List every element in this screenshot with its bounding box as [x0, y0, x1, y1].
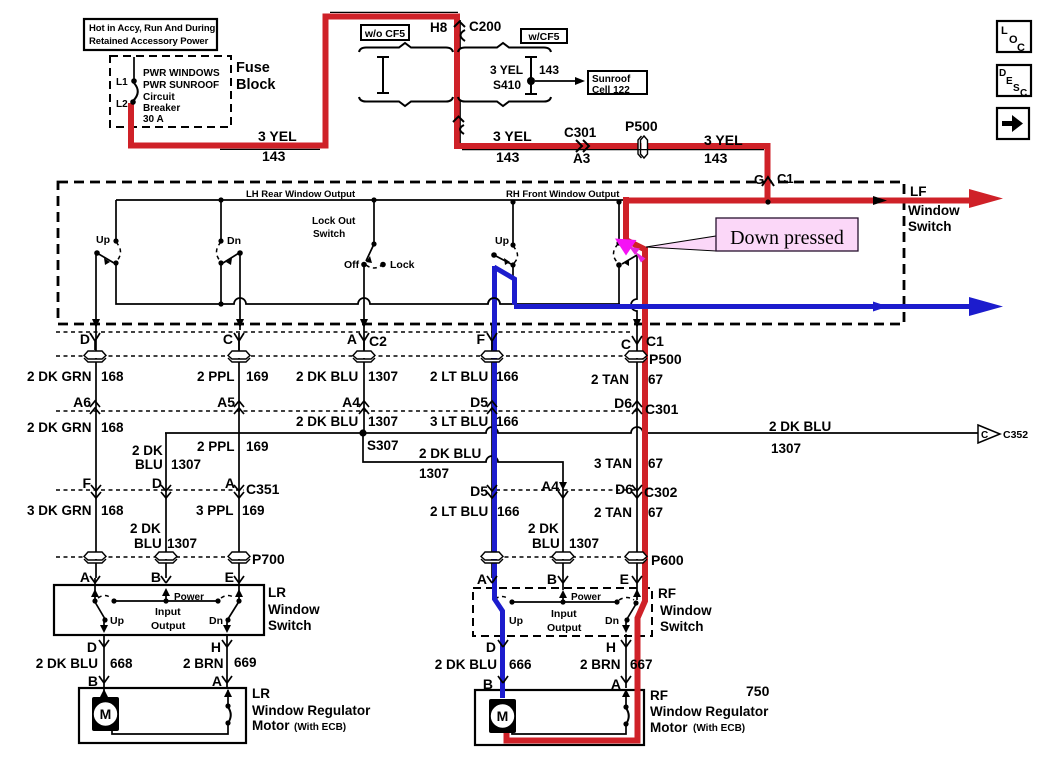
svg-text:Up: Up — [509, 615, 523, 627]
svg-text:A: A — [347, 331, 357, 347]
svg-text:750: 750 — [746, 683, 770, 699]
svg-text:P500: P500 — [649, 351, 682, 367]
svg-text:(With ECB): (With ECB) — [294, 722, 346, 733]
svg-text:Motor: Motor — [650, 720, 688, 735]
svg-text:3 YEL: 3 YEL — [704, 132, 743, 148]
svg-text:Switch: Switch — [660, 619, 704, 634]
svg-text:A4: A4 — [342, 394, 360, 410]
svg-text:Output: Output — [151, 620, 186, 632]
svg-text:Output: Output — [547, 622, 582, 634]
svg-text:2 BRN: 2 BRN — [580, 657, 621, 672]
svg-text:B: B — [483, 676, 493, 692]
svg-text:C352: C352 — [1003, 429, 1028, 441]
svg-text:P700: P700 — [252, 551, 285, 567]
svg-text:166: 166 — [497, 504, 520, 519]
svg-text:Window Regulator: Window Regulator — [650, 704, 769, 719]
svg-text:C200: C200 — [469, 19, 501, 34]
svg-text:Window: Window — [268, 602, 320, 617]
svg-text:A4: A4 — [541, 478, 559, 494]
svg-text:168: 168 — [101, 420, 124, 435]
svg-text:H: H — [606, 639, 616, 655]
svg-text:3 PPL: 3 PPL — [196, 503, 234, 518]
svg-text:1307: 1307 — [569, 536, 599, 551]
svg-text:169: 169 — [246, 369, 269, 384]
svg-text:2 LT BLU: 2 LT BLU — [430, 369, 488, 384]
svg-text:Power: Power — [174, 592, 204, 603]
svg-text:C1: C1 — [777, 171, 794, 186]
svg-text:C: C — [1020, 88, 1027, 99]
svg-text:D5: D5 — [470, 483, 488, 499]
svg-text:Power: Power — [571, 592, 601, 603]
svg-text:Input: Input — [155, 606, 181, 618]
svg-text:C302: C302 — [644, 484, 678, 500]
svg-text:S410: S410 — [493, 78, 521, 92]
svg-text:2 DK BLU: 2 DK BLU — [36, 656, 98, 671]
svg-text:669: 669 — [234, 655, 257, 670]
svg-text:Up: Up — [495, 235, 509, 247]
svg-text:3 TAN: 3 TAN — [594, 456, 632, 471]
svg-text:BLU: BLU — [135, 457, 163, 472]
svg-text:2 DK: 2 DK — [132, 443, 163, 458]
svg-text:A: A — [80, 569, 90, 585]
svg-text:Motor: Motor — [252, 718, 290, 733]
svg-text:RF: RF — [650, 688, 668, 703]
svg-text:LR: LR — [252, 686, 270, 701]
svg-text:LF: LF — [910, 184, 927, 199]
svg-text:2 BRN: 2 BRN — [183, 656, 224, 671]
svg-text:2 DK: 2 DK — [130, 521, 161, 536]
svg-text:C: C — [223, 331, 233, 347]
svg-text:Block: Block — [236, 77, 276, 93]
svg-text:Lock Out: Lock Out — [312, 216, 356, 227]
svg-text:666: 666 — [509, 657, 532, 672]
svg-text:3 YEL: 3 YEL — [490, 63, 523, 77]
svg-text:E: E — [1006, 76, 1013, 87]
svg-text:Window: Window — [660, 603, 712, 618]
svg-text:H: H — [211, 639, 221, 655]
svg-text:D5: D5 — [470, 394, 488, 410]
svg-text:C351: C351 — [246, 481, 280, 497]
svg-text:2 DK BLU: 2 DK BLU — [769, 419, 831, 434]
svg-text:E: E — [225, 569, 234, 585]
svg-text:Cell 122: Cell 122 — [592, 85, 630, 96]
svg-text:168: 168 — [101, 503, 124, 518]
svg-text:P600: P600 — [651, 552, 684, 568]
svg-text:2 DK BLU: 2 DK BLU — [419, 446, 481, 461]
svg-text:Fuse: Fuse — [236, 60, 270, 76]
svg-text:Circuit: Circuit — [143, 92, 175, 103]
svg-text:C2: C2 — [369, 333, 387, 349]
svg-text:30 A: 30 A — [143, 114, 164, 125]
svg-text:D6: D6 — [615, 481, 633, 497]
svg-text:G: G — [754, 172, 764, 187]
svg-text:143: 143 — [704, 150, 728, 166]
svg-text:169: 169 — [242, 503, 265, 518]
svg-text:Switch: Switch — [268, 618, 312, 633]
svg-text:3 DK GRN: 3 DK GRN — [27, 503, 92, 518]
svg-text:Dn: Dn — [227, 235, 241, 247]
svg-text:3 YEL: 3 YEL — [258, 128, 297, 144]
svg-text:A: A — [225, 475, 235, 491]
svg-text:67: 67 — [648, 372, 663, 387]
svg-text:C301: C301 — [645, 401, 679, 417]
svg-text:169: 169 — [246, 439, 269, 454]
svg-text:2 DK: 2 DK — [528, 521, 559, 536]
svg-text:1307: 1307 — [419, 466, 449, 481]
svg-text:Up: Up — [96, 234, 110, 246]
svg-text:166: 166 — [496, 369, 519, 384]
svg-text:667: 667 — [630, 657, 653, 672]
svg-text:67: 67 — [648, 505, 663, 520]
svg-text:2 DK BLU: 2 DK BLU — [435, 657, 497, 672]
svg-text:A: A — [611, 676, 621, 692]
svg-text:D: D — [80, 331, 90, 347]
svg-text:D: D — [486, 639, 496, 655]
svg-text:D6: D6 — [614, 395, 632, 411]
svg-text:C: C — [981, 430, 988, 441]
svg-text:C: C — [621, 336, 631, 352]
svg-text:2 DK GRN: 2 DK GRN — [27, 420, 92, 435]
svg-text:2 PPL: 2 PPL — [197, 369, 235, 384]
svg-text:143: 143 — [496, 149, 520, 165]
svg-text:F: F — [476, 331, 485, 347]
svg-text:C: C — [1017, 42, 1025, 54]
svg-text:C301: C301 — [564, 125, 597, 140]
svg-text:BLU: BLU — [134, 536, 162, 551]
svg-text:Dn: Dn — [605, 615, 619, 627]
svg-text:Hot in Accy, Run And During: Hot in Accy, Run And During — [89, 23, 216, 34]
svg-text:1307: 1307 — [167, 536, 197, 551]
svg-text:1307: 1307 — [368, 414, 398, 429]
svg-text:LR: LR — [268, 585, 286, 600]
svg-text:P500: P500 — [625, 118, 658, 134]
svg-text:Window Regulator: Window Regulator — [252, 703, 371, 718]
svg-text:Sunroof: Sunroof — [592, 74, 631, 85]
svg-text:L: L — [1001, 25, 1008, 37]
svg-text:2 TAN: 2 TAN — [591, 372, 629, 387]
svg-text:143: 143 — [539, 63, 559, 77]
svg-text:Switch: Switch — [313, 229, 345, 240]
svg-text:168: 168 — [101, 369, 124, 384]
svg-text:Window: Window — [908, 203, 960, 218]
svg-text:Switch: Switch — [908, 219, 952, 234]
svg-text:A: A — [477, 571, 487, 587]
svg-text:C1: C1 — [646, 333, 664, 349]
svg-text:Up: Up — [110, 615, 124, 627]
svg-text:PWR WINDOWS: PWR WINDOWS — [143, 68, 220, 79]
svg-text:2 DK BLU: 2 DK BLU — [296, 414, 358, 429]
svg-text:M: M — [100, 706, 112, 722]
svg-text:M: M — [497, 708, 509, 724]
svg-text:PWR SUNROOF: PWR SUNROOF — [143, 80, 219, 91]
svg-text:A3: A3 — [573, 151, 591, 166]
svg-text:B: B — [547, 571, 557, 587]
svg-text:E: E — [620, 571, 629, 587]
svg-text:Off: Off — [344, 259, 360, 271]
svg-text:Dn: Dn — [209, 615, 223, 627]
svg-text:RH Front Window Output: RH Front Window Output — [506, 189, 620, 200]
svg-text:D: D — [152, 475, 162, 491]
svg-text:L1: L1 — [116, 77, 128, 88]
svg-text:166: 166 — [496, 414, 519, 429]
svg-text:1307: 1307 — [771, 441, 801, 456]
svg-text:Lock: Lock — [390, 259, 415, 271]
svg-text:(With ECB): (With ECB) — [693, 723, 745, 734]
svg-text:B: B — [88, 673, 98, 689]
svg-text:S: S — [1013, 83, 1020, 94]
svg-text:2 DK GRN: 2 DK GRN — [27, 369, 92, 384]
svg-text:Breaker: Breaker — [143, 103, 180, 114]
svg-text:3 YEL: 3 YEL — [493, 128, 532, 144]
svg-text:B: B — [151, 569, 161, 585]
svg-text:w/o CF5: w/o CF5 — [364, 28, 405, 40]
svg-text:L2: L2 — [116, 99, 128, 110]
svg-text:LH Rear Window Output: LH Rear Window Output — [246, 189, 356, 200]
svg-text:RF: RF — [658, 586, 676, 601]
svg-text:F: F — [82, 475, 91, 491]
svg-text:67: 67 — [648, 456, 663, 471]
svg-text:143: 143 — [262, 148, 286, 164]
svg-text:Input: Input — [551, 608, 577, 620]
svg-text:2 DK BLU: 2 DK BLU — [296, 369, 358, 384]
svg-text:Retained Accessory Power: Retained Accessory Power — [89, 36, 209, 47]
svg-text:A: A — [212, 673, 222, 689]
svg-text:2 PPL: 2 PPL — [197, 439, 235, 454]
svg-text:1307: 1307 — [368, 369, 398, 384]
svg-text:Down pressed: Down pressed — [730, 227, 844, 249]
svg-text:w/CF5: w/CF5 — [528, 31, 560, 43]
svg-text:3 LT BLU: 3 LT BLU — [430, 414, 488, 429]
svg-text:D: D — [87, 639, 97, 655]
svg-text:H8: H8 — [430, 20, 448, 35]
svg-text:BLU: BLU — [532, 536, 560, 551]
svg-text:A5: A5 — [217, 394, 235, 410]
svg-text:S307: S307 — [367, 438, 399, 453]
svg-text:2 TAN: 2 TAN — [594, 505, 632, 520]
svg-text:2 LT BLU: 2 LT BLU — [430, 504, 488, 519]
svg-text:668: 668 — [110, 656, 133, 671]
svg-text:A6: A6 — [73, 394, 91, 410]
svg-text:1307: 1307 — [171, 457, 201, 472]
